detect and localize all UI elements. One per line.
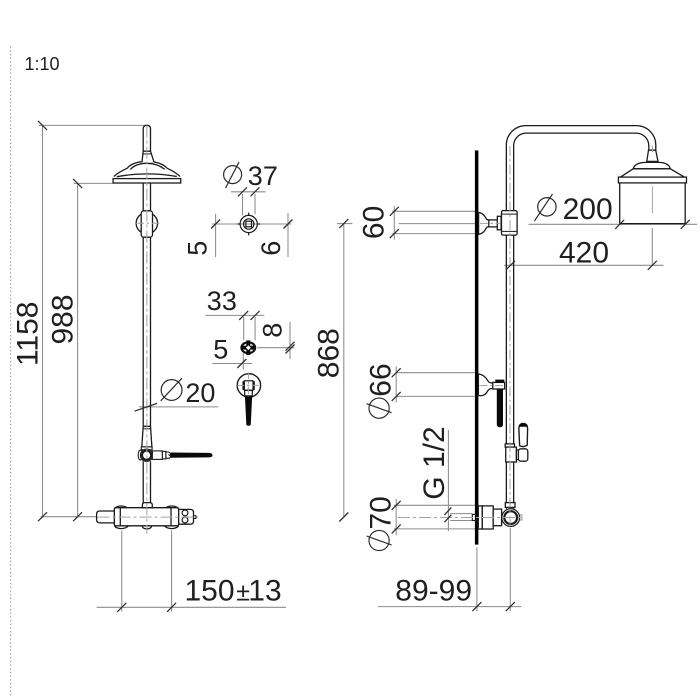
tick 6 right [284, 220, 293, 229]
head bottom face side [620, 223, 686, 225]
head dome front [127, 161, 167, 168]
svg-text:60: 60 [358, 206, 391, 239]
tick 420 right [648, 261, 657, 270]
dim 1158/988 extension bottom [41, 516, 97, 518]
dim 420 extension right [651, 228, 653, 266]
tick 1158 top [38, 121, 47, 130]
detail lever black handle [245, 396, 252, 426]
head cap base seam side [633, 168, 670, 170]
dim 33 line [205, 314, 264, 316]
thermostat handle left [97, 511, 115, 523]
bottom elbow ball inner [504, 511, 517, 524]
diverter lever hub front [152, 451, 162, 460]
centerline thermostat horizontal [98, 516, 199, 518]
svg-text:420: 420 [559, 236, 609, 269]
thermostat union right [160, 506, 183, 529]
head skirt seam front [117, 174, 177, 177]
dim 5-6 line through elbow face [212, 223, 291, 225]
centerline detail lever vertical [247, 372, 249, 396]
bottom elbow ball outer [502, 509, 520, 527]
dim 70 line [395, 499, 397, 535]
svg-text:33: 33 [207, 286, 237, 316]
detail elbow face ticks [248, 213, 250, 216]
svg-text:G 1/2: G 1/2 [418, 426, 451, 499]
bottom elbow nub right [520, 515, 522, 520]
centerline front vertical [146, 126, 148, 534]
svg-text:868: 868 [313, 328, 346, 378]
dim 988 extension top [74, 182, 114, 184]
supply collar side [472, 514, 476, 520]
detail lever base [244, 381, 253, 390]
diameter symbol 200 [535, 194, 557, 221]
dim 150 line [97, 606, 286, 608]
riser pipe front upper [142, 183, 144, 211]
svg-text:1:10: 1:10 [25, 54, 60, 74]
tick 420 left [506, 261, 515, 270]
riser pipe side left line [506, 126, 655, 211]
dim 6 extension [287, 213, 289, 257]
tick 70 bottom [392, 524, 401, 533]
head flange side [618, 177, 686, 183]
head arm nut side [647, 150, 658, 161]
tick 37 right [251, 187, 260, 196]
supply pipe side [450, 513, 472, 515]
dim 37 extension left [242, 194, 244, 215]
head cone seam front [143, 153, 151, 155]
dim 868 extension mid [399, 223, 476, 225]
ball joint sphere front [136, 213, 157, 234]
tick 868 top [339, 219, 348, 228]
centerline wall elbow [480, 222, 500, 224]
ball joint sleeve front [141, 211, 152, 237]
diverter body side [506, 447, 517, 462]
centerline detail lever [237, 384, 260, 386]
dim 70 extension bottom [394, 528, 479, 530]
dim 33 extension right [254, 317, 256, 340]
handshower grip black side [497, 389, 503, 427]
head top cap side [633, 162, 670, 168]
holder stub line [242, 353, 244, 370]
label 70 rotated with diameter [365, 496, 398, 550]
bottom elbow body side [493, 509, 501, 526]
dim 868 extension stub [337, 223, 353, 225]
holder arm side [493, 382, 505, 389]
head spike front [143, 125, 150, 151]
tick 868 bottom [339, 513, 348, 522]
tick 66 bottom [392, 392, 401, 401]
tick G12 lower [444, 515, 451, 523]
diameter symbol 37 [224, 162, 242, 188]
lever hub side [518, 449, 527, 461]
thermostat body seam left [119, 508, 121, 526]
wall elbow escutcheon side [479, 212, 489, 234]
handle button upper [182, 510, 188, 516]
detail lever group [237, 374, 260, 397]
tick 37 left [238, 187, 247, 196]
centerline head side [651, 146, 653, 152]
diverter collar front [141, 447, 152, 450]
thermostat outlet bulge [142, 526, 152, 529]
centerline supply side [398, 517, 522, 519]
tick 200 right [681, 220, 690, 229]
dim 70 extension top [394, 504, 479, 506]
dim 60 line [393, 206, 395, 239]
centerline ball horizontal [136, 222, 160, 224]
wall elbow nut side [497, 216, 501, 230]
thermostat handle right [179, 509, 194, 524]
dim 150 extension left [121, 531, 123, 612]
detail holder cross [241, 340, 256, 355]
svg-text:5: 5 [213, 334, 228, 364]
leader G12 line [447, 430, 449, 531]
tick 60 top [390, 207, 399, 216]
dim 66 extension bottom [396, 395, 474, 397]
thermostat group front [97, 503, 196, 529]
tick 8 lower [286, 345, 295, 354]
leader 20 underline [139, 406, 218, 408]
tick 33 right [251, 311, 260, 320]
svg-text:89-99: 89-99 [395, 575, 472, 608]
tick 8 upper [286, 342, 295, 351]
diverter body outer front [140, 449, 152, 461]
svg-text:150: 150 [185, 575, 235, 608]
detail elbow face outer ring [240, 215, 257, 232]
centerline riser side [509, 146, 511, 527]
tick 89-99 left [472, 602, 481, 611]
dim 60 extension top [392, 210, 475, 212]
head skirt left front [114, 168, 128, 176]
tick 988 top [73, 179, 82, 188]
thermostat union left [110, 506, 133, 529]
holder escutcheon side [478, 374, 492, 396]
riser pipe side right line [514, 133, 649, 211]
dim 5 holder line [212, 363, 252, 365]
wall flange thin side [478, 506, 482, 529]
riser pipe front middle [142, 237, 144, 426]
tick 89-99 right [506, 602, 515, 611]
tick 5 holder [237, 359, 246, 368]
riser pipe side mid segment [505, 235, 507, 444]
dim 5 extension [215, 214, 217, 257]
thermostat inlet nut [142, 503, 152, 508]
svg-text:37: 37 [248, 161, 278, 191]
dim 1158 line [42, 125, 44, 516]
svg-text:66: 66 [365, 363, 398, 396]
diverter collar side [505, 444, 514, 447]
detail elbow face square [246, 221, 252, 227]
svg-text:70: 70 [365, 496, 398, 529]
svg-text:13: 13 [248, 575, 281, 608]
centerline holder arm [480, 385, 506, 387]
tick 200 left [615, 220, 624, 229]
head cylinder side [619, 183, 621, 224]
tick 70 top [392, 501, 401, 510]
handle nub right [194, 516, 197, 519]
porcelain lever side [519, 423, 528, 446]
dim 37 extension right [254, 194, 256, 214]
wall flange main side [482, 506, 493, 529]
dim 66 extension top [396, 372, 474, 374]
diameter symbol 20 [161, 378, 182, 401]
svg-text:988: 988 [46, 294, 79, 344]
head cone front [142, 151, 154, 162]
svg-text:1158: 1158 [12, 302, 45, 367]
head flange front [113, 179, 181, 183]
diverter lever black front [171, 453, 213, 458]
wall line [475, 150, 479, 544]
dim 8 line [258, 347, 295, 349]
dim 200 line [529, 223, 698, 225]
tick 66 top [392, 368, 401, 377]
tick 60 bottom [390, 229, 399, 238]
svg-text:8: 8 [257, 323, 287, 338]
dim 420 line [504, 264, 663, 266]
tick 33 left [239, 311, 248, 320]
dim 89-99 extension right [509, 528, 511, 612]
dim 8 extension [289, 322, 291, 359]
dim 33 extension left [243, 317, 245, 340]
handshower grip taper front [142, 426, 152, 447]
dim 988 line [77, 183, 79, 516]
head skirt right front [167, 168, 180, 176]
riser pipe front lower [142, 461, 144, 503]
tick 1158 bottom [38, 512, 47, 521]
tick 5 left [211, 220, 220, 229]
tick 988 bottom [73, 512, 82, 521]
svg-text:5: 5 [183, 241, 213, 256]
porcelain lever tip black side [519, 423, 528, 426]
wall elbow stem side [489, 219, 498, 221]
tick 150 right [167, 603, 176, 612]
tick leader 20 [135, 403, 158, 411]
dim 89-99 line [378, 606, 521, 608]
svg-text:6: 6 [256, 241, 286, 256]
head bell side [621, 169, 685, 177]
dim 1158 extension top [39, 124, 145, 126]
riser bottom collar side [505, 503, 515, 508]
handle button lower [182, 517, 188, 523]
label 66 rotated with diameter [365, 363, 398, 418]
diverter body ring front [142, 451, 151, 460]
tick G12 upper [444, 507, 451, 515]
dotted page border left [10, 47, 12, 698]
dim 868 line [343, 224, 345, 517]
svg-text:200: 200 [563, 193, 613, 226]
thermostat body [114, 508, 178, 526]
thermostat body seam right [170, 508, 172, 526]
dim 89-99 extension left [476, 547, 478, 611]
wall elbow tee side [502, 211, 518, 236]
head dome seam front [130, 163, 164, 169]
tick 150 left [117, 603, 126, 612]
holder cap black side [495, 380, 504, 383]
dim 37 line [231, 191, 266, 193]
dim 60 extension bottom [392, 233, 475, 235]
riser pipe side low segment [505, 462, 507, 503]
detail elbow face inner ring [244, 219, 254, 229]
dim 66 line [395, 366, 397, 402]
svg-text:20: 20 [185, 378, 215, 408]
diverter end cap left front [138, 450, 142, 460]
diverter body step side [516, 450, 519, 460]
detail lever escutcheon [237, 374, 260, 397]
dim 150 extension right [171, 530, 173, 611]
